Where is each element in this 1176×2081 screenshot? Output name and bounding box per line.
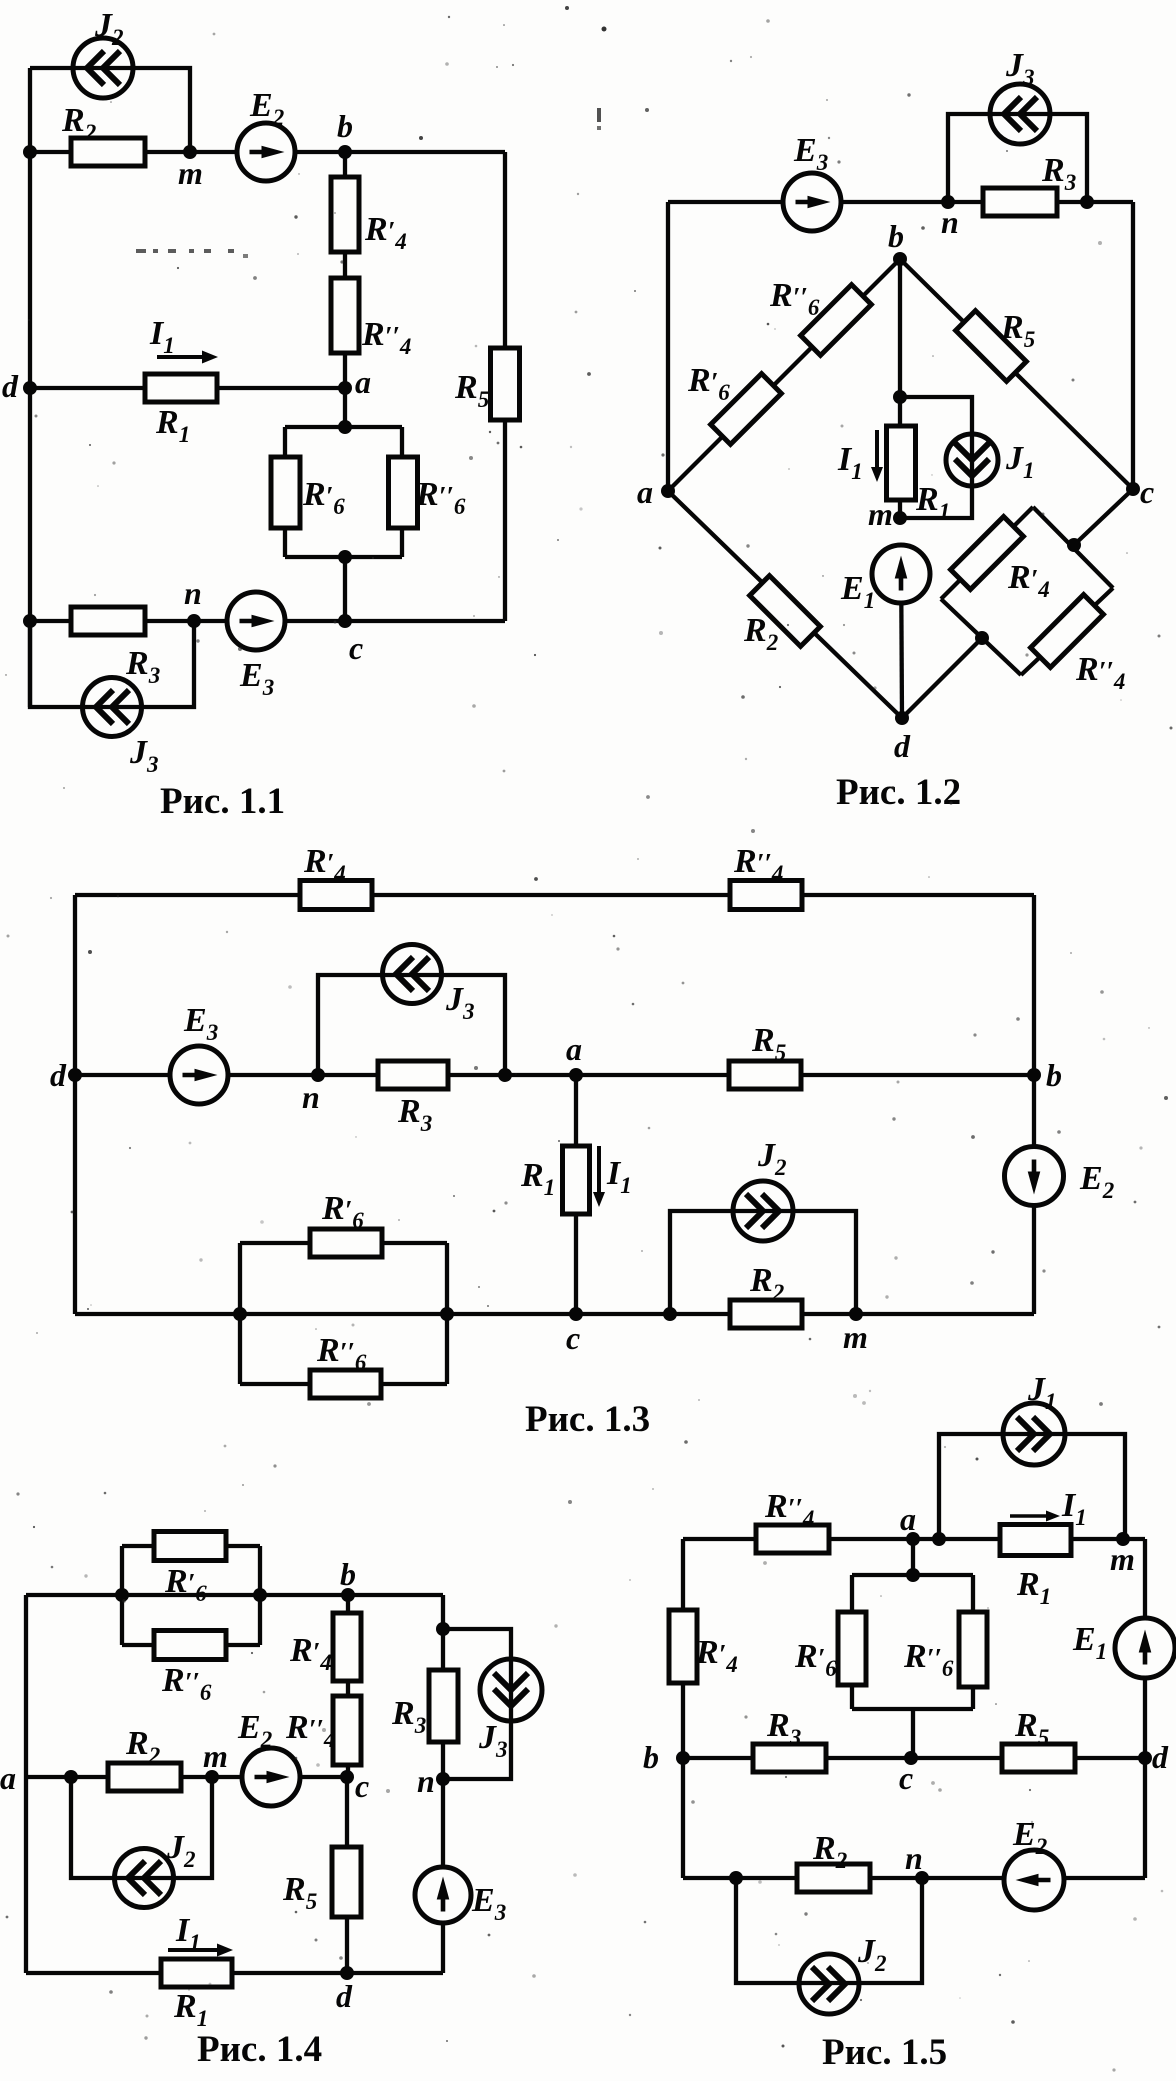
svg-text:I1: I1 (606, 1155, 632, 1198)
svg-text:c: c (355, 1768, 369, 1804)
svg-text:R2: R2 (61, 102, 96, 145)
svg-text:a: a (566, 1031, 582, 1067)
svg-text:J2: J2 (757, 1137, 787, 1180)
svg-text:R′′6: R′′6 (903, 1638, 954, 1681)
svg-text:R1: R1 (173, 1988, 208, 2031)
svg-text:I1: I1 (1061, 1487, 1087, 1530)
svg-text:Рис. 1.2: Рис. 1.2 (836, 772, 961, 813)
svg-text:J2: J2 (166, 1829, 196, 1872)
svg-text:R5: R5 (1000, 309, 1035, 352)
svg-text:Рис. 1.5: Рис. 1.5 (822, 2032, 947, 2073)
svg-text:n: n (905, 1840, 923, 1876)
svg-text:R1: R1 (520, 1157, 555, 1200)
svg-text:R′6: R′6 (321, 1190, 364, 1233)
svg-text:E2: E2 (1012, 1816, 1047, 1859)
svg-text:R′′4: R′′4 (1075, 651, 1125, 694)
svg-text:d: d (336, 1978, 353, 2014)
svg-text:J3: J3 (129, 734, 159, 777)
svg-text:b: b (643, 1739, 659, 1775)
svg-text:b: b (337, 108, 353, 144)
svg-text:c: c (1140, 474, 1154, 510)
svg-text:b: b (888, 218, 904, 254)
svg-text:R′′6: R′′6 (415, 476, 466, 519)
svg-text:R′4: R′4 (289, 1632, 332, 1675)
svg-text:E3: E3 (239, 657, 274, 700)
svg-text:n: n (302, 1079, 320, 1115)
svg-text:d: d (2, 368, 19, 404)
svg-text:m: m (1110, 1541, 1135, 1577)
svg-text:R1: R1 (1016, 1566, 1051, 1609)
svg-text:R5: R5 (1014, 1707, 1049, 1750)
svg-text:R5: R5 (282, 1871, 317, 1914)
svg-text:R′6: R′6 (687, 362, 730, 405)
svg-text:m: m (868, 496, 893, 532)
svg-text:n: n (184, 575, 202, 611)
svg-text:E2: E2 (237, 1709, 272, 1752)
svg-text:d: d (894, 728, 911, 764)
svg-text:R1: R1 (155, 404, 190, 447)
svg-text:b: b (1046, 1057, 1062, 1093)
svg-text:J1: J1 (1027, 1371, 1057, 1414)
svg-text:E3: E3 (183, 1002, 218, 1045)
svg-text:R3: R3 (391, 1695, 426, 1738)
svg-text:c: c (899, 1760, 913, 1796)
svg-text:J2: J2 (857, 1933, 887, 1976)
svg-text:R5: R5 (751, 1022, 786, 1065)
svg-text:Рис. 1.3: Рис. 1.3 (525, 1399, 650, 1440)
svg-text:J3: J3 (445, 981, 475, 1024)
svg-text:c: c (349, 630, 363, 666)
svg-text:Рис. 1.1: Рис. 1.1 (160, 781, 285, 822)
svg-text:R2: R2 (812, 1830, 847, 1873)
svg-text:n: n (941, 204, 959, 240)
svg-text:a: a (637, 474, 653, 510)
svg-text:I1: I1 (837, 441, 863, 484)
svg-text:R′′4: R′′4 (285, 1709, 335, 1752)
svg-text:I1: I1 (149, 315, 175, 358)
svg-text:R′6: R′6 (164, 1563, 207, 1606)
svg-text:a: a (0, 1760, 16, 1796)
svg-text:E1: E1 (1072, 1621, 1107, 1664)
svg-text:R3: R3 (766, 1707, 801, 1750)
svg-text:R3: R3 (397, 1093, 432, 1136)
svg-text:m: m (178, 155, 203, 191)
svg-text:R′4: R′4 (695, 1634, 738, 1677)
svg-text:I1: I1 (175, 1912, 201, 1955)
svg-text:d: d (50, 1057, 67, 1093)
svg-text:m: m (843, 1319, 868, 1355)
svg-text:n: n (417, 1763, 435, 1799)
svg-text:R′6: R′6 (794, 1638, 837, 1681)
svg-text:J3: J3 (1005, 47, 1035, 90)
svg-text:R2: R2 (125, 1725, 160, 1768)
svg-text:m: m (203, 1738, 228, 1774)
svg-text:R′6: R′6 (302, 476, 345, 519)
svg-text:E2: E2 (1079, 1160, 1114, 1203)
svg-text:R′′6: R′′6 (161, 1662, 212, 1705)
svg-text:R1: R1 (915, 481, 950, 524)
svg-text:J1: J1 (1005, 440, 1035, 483)
svg-text:a: a (900, 1501, 916, 1537)
svg-text:R′4: R′4 (364, 211, 407, 254)
svg-text:c: c (566, 1320, 580, 1356)
svg-text:R′′6: R′′6 (769, 277, 820, 320)
svg-text:R3: R3 (1041, 152, 1076, 195)
svg-text:b: b (340, 1556, 356, 1592)
svg-text:R3: R3 (125, 645, 160, 688)
svg-text:Рис. 1.4: Рис. 1.4 (197, 2029, 322, 2070)
svg-text:E2: E2 (249, 87, 284, 130)
svg-text:a: a (355, 364, 371, 400)
svg-text:R2: R2 (749, 1262, 784, 1305)
svg-text:R′4: R′4 (1007, 559, 1050, 602)
svg-text:R5: R5 (454, 369, 489, 412)
svg-text:E3: E3 (471, 1882, 506, 1925)
svg-text:E3: E3 (793, 132, 828, 175)
svg-text:J3: J3 (478, 1719, 508, 1762)
svg-text:d: d (1152, 1739, 1169, 1775)
svg-text:R′′4: R′′4 (361, 316, 411, 359)
svg-text:R′4: R′4 (303, 843, 346, 886)
svg-text:J2: J2 (94, 7, 124, 50)
